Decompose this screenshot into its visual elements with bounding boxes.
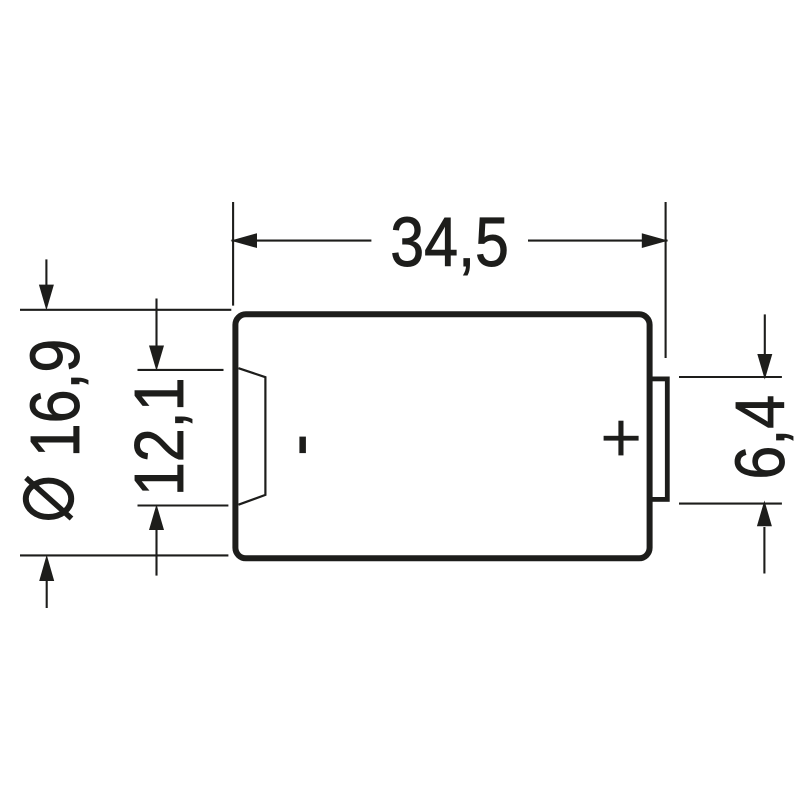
svg-text:6,4: 6,4 (721, 395, 799, 480)
svg-text:34,5: 34,5 (390, 203, 509, 281)
svg-text:12,1: 12,1 (120, 377, 198, 496)
svg-text:16,9: 16,9 (16, 339, 94, 458)
